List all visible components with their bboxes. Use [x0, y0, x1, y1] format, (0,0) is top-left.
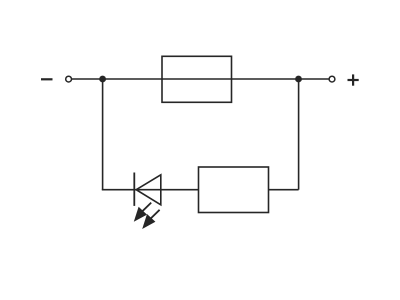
- LED D1: wire through symbol: [134, 189, 198, 191]
- terminal circle (left, − terminal): [66, 76, 72, 82]
- LED D1: light emission arrow 2: [142, 210, 159, 229]
- LED D1: triangle (anode, pointing left): [136, 175, 161, 205]
- wire: bottom-left horizontal to LED cathode: [102, 189, 135, 191]
- negative polarity mark "−": [41, 78, 53, 80]
- wire: right vertical rise to node B: [298, 79, 300, 190]
- positive polarity mark "+": [348, 74, 359, 85]
- LED D1: cathode bar: [133, 173, 135, 206]
- node A (left junction): [99, 76, 106, 83]
- terminal circle (right, + terminal): [329, 76, 335, 82]
- node B (right junction): [295, 76, 302, 83]
- LED D1: light emission arrow 1: [134, 203, 151, 222]
- wire: resistor to right vertical: [269, 189, 299, 191]
- wire: top bus (− terminal to + terminal, passes through fuse): [72, 78, 330, 80]
- resistor R1 (rectangle in LED branch): [199, 167, 269, 213]
- wire: left vertical drop from node A: [102, 79, 104, 190]
- fuse F1 (rectangle on top rail): [162, 56, 232, 102]
